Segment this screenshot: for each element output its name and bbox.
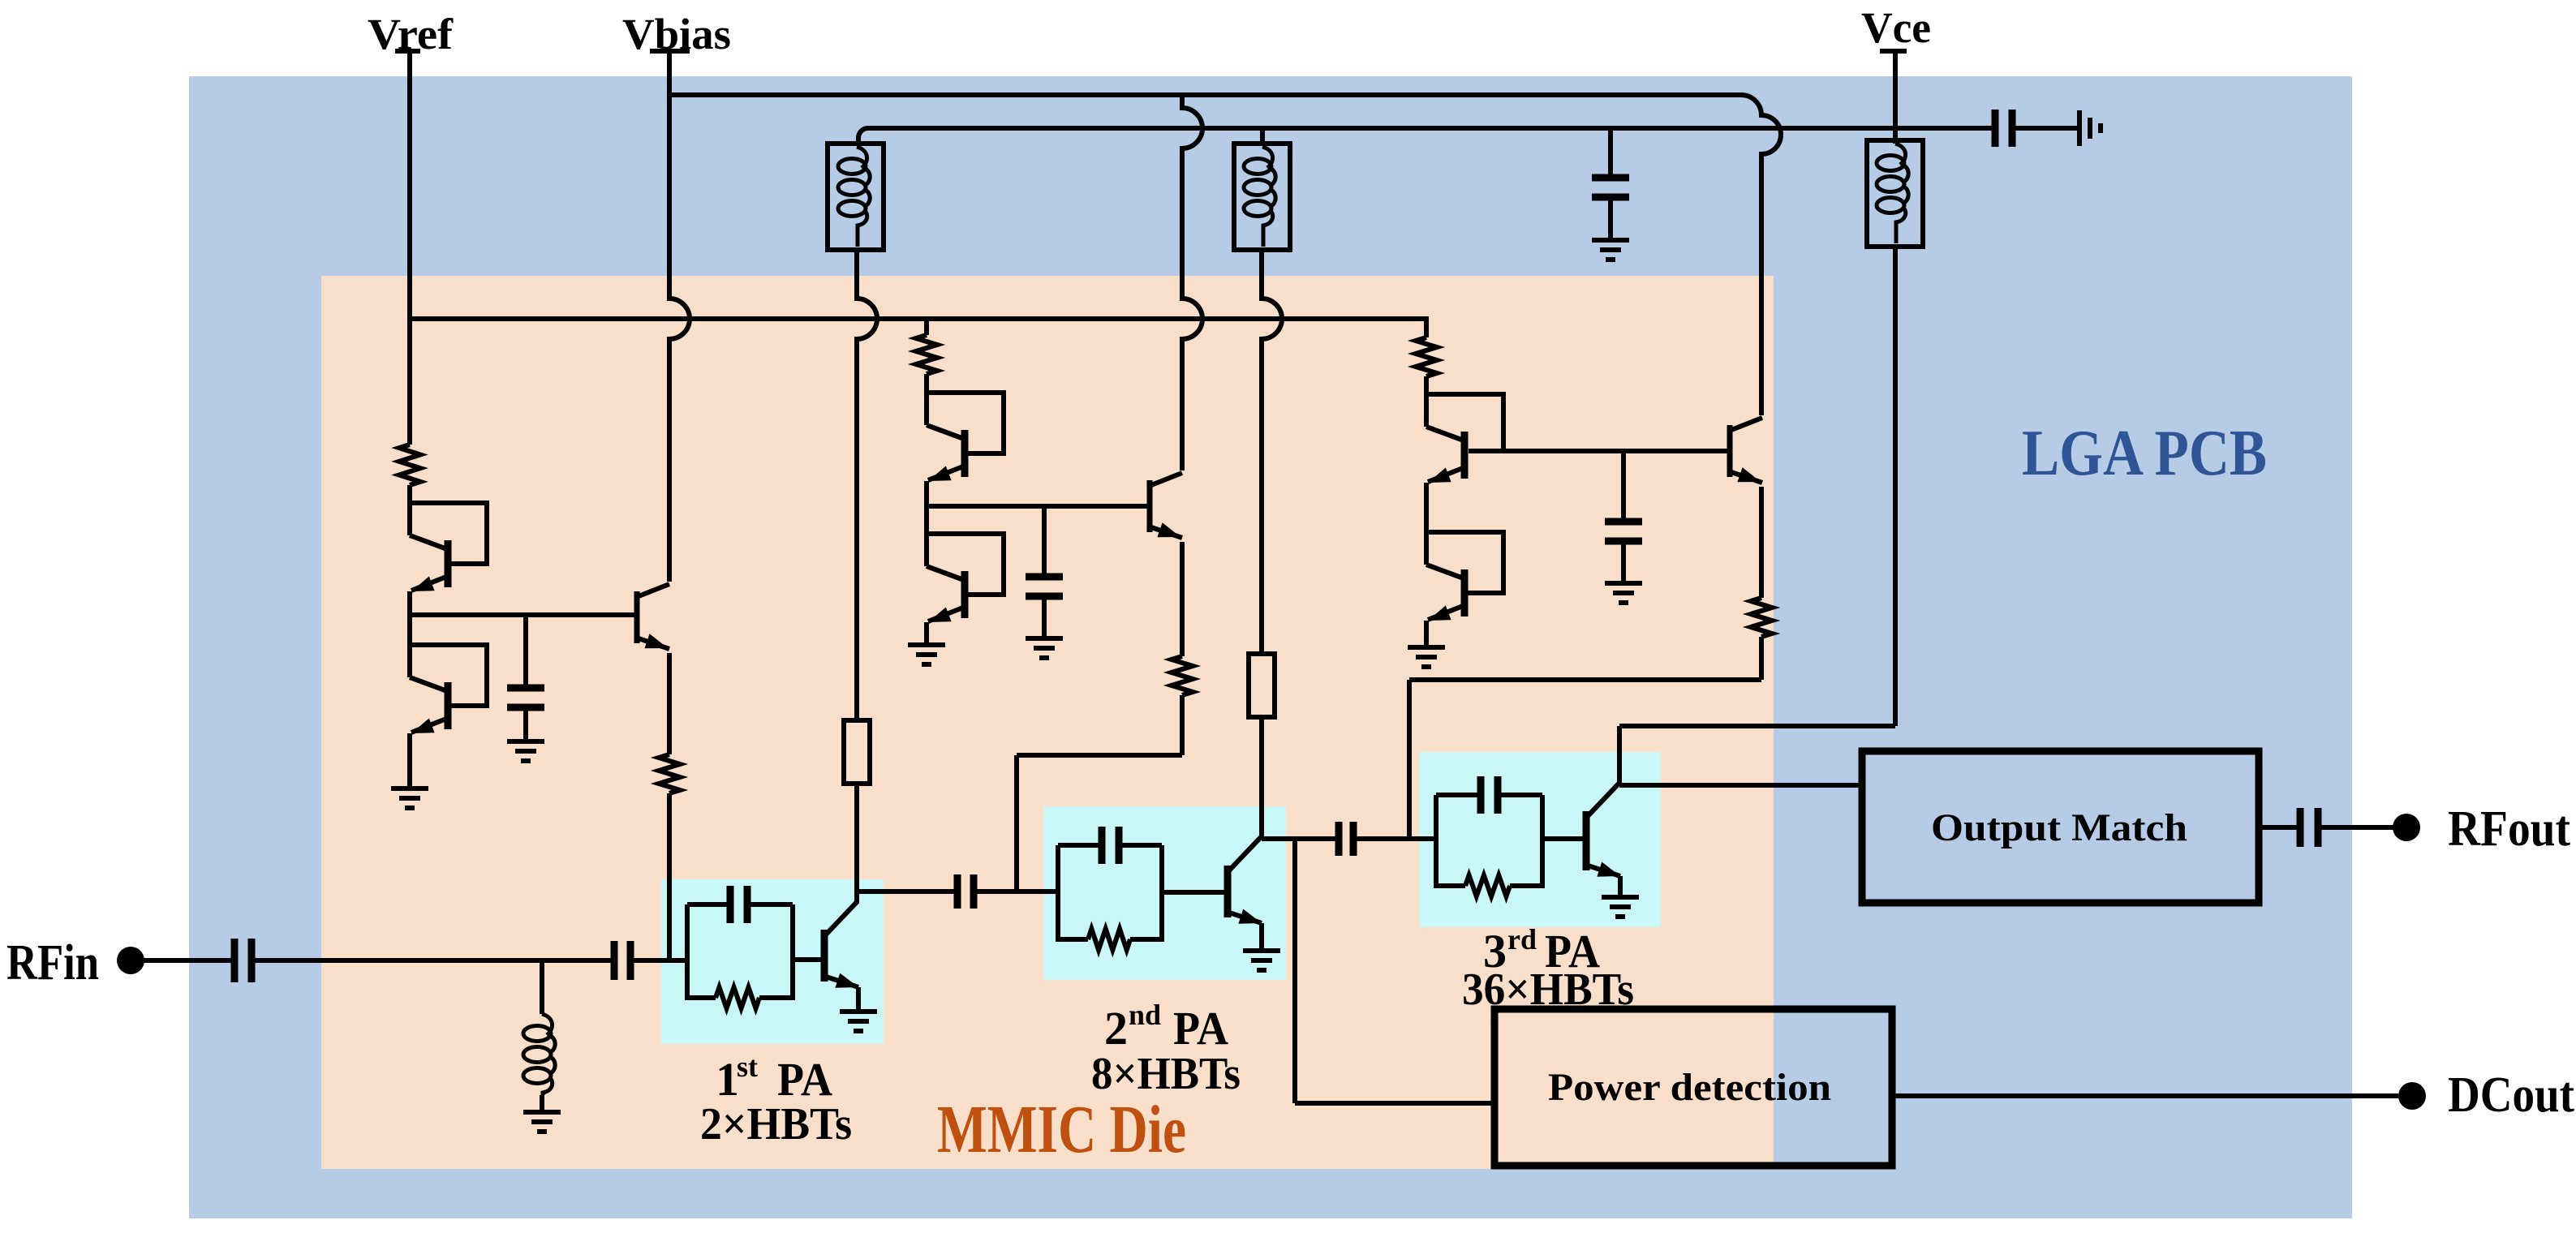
- ballast network PA3 (loop): [1436, 795, 1542, 886]
- wire C4 to side ground: [2012, 126, 2079, 131]
- wire PA1 emitter to ground: [856, 987, 861, 1012]
- svg-text:LGA PCB: LGA PCB: [2022, 418, 2267, 489]
- resistor R1 (Vref bias stack): [399, 445, 420, 485]
- wire follower2 feed horizontal: [1017, 753, 1182, 758]
- label 3rd PA: [1483, 923, 1600, 977]
- wire Vce line2: [858, 128, 1998, 144]
- wire R5 to Q7: [1424, 376, 1429, 394]
- capacitor C1 lead: [523, 615, 528, 688]
- resistor R2 (follower 1 emitter): [659, 754, 680, 793]
- wire ballast2 to base: [1162, 890, 1228, 895]
- wire R7 to PA1 collector: [854, 784, 859, 903]
- ground (PA3): [1602, 897, 1639, 917]
- capacitor C10 (PA2 ballast): [1102, 827, 1119, 864]
- inductor L1 (choke, boxed): [828, 144, 884, 250]
- wire line2 tap to inductor L2: [1260, 128, 1265, 144]
- label RFout: [2448, 801, 2570, 857]
- MMIC Die region (peach panel): [321, 276, 1774, 1169]
- resistor R4 (follower 2 emitter): [1172, 656, 1193, 695]
- ground (C1): [507, 741, 544, 761]
- wire C6 to node A: [252, 958, 614, 963]
- wire L1 lead down with hop over Vref rail: [857, 250, 877, 720]
- capacitor C4 (Vce decoupling, series): [1995, 110, 2012, 147]
- Power detection box: [1494, 1009, 1892, 1166]
- wire Vbias top rail (line 1): [669, 95, 1781, 415]
- wire Vref vertical: [407, 51, 412, 445]
- 1st PA highlight (cyan): [661, 879, 884, 1044]
- resistor R6 (follower 3 emitter): [1751, 598, 1772, 637]
- label MMIC Die: [937, 1092, 1186, 1167]
- resistor R10 (PA2 ballast): [1088, 929, 1130, 950]
- wire ballast1 to base: [793, 957, 824, 962]
- svg-text:8×HBTs: 8×HBTs: [1091, 1049, 1241, 1099]
- wire R8 to PA2 collector: [1259, 717, 1264, 839]
- svg-text:Vce: Vce: [1861, 3, 1931, 52]
- ground (PA1): [840, 1012, 877, 1031]
- wire R2 to PA1 input: [667, 793, 672, 960]
- wire ballast2 mid: [1056, 889, 1060, 894]
- resistor R3 (stack 2): [916, 335, 937, 374]
- capacitor C9 (interstage 1 DC block): [957, 874, 974, 909]
- svg-text:PA: PA: [1173, 1002, 1228, 1055]
- ground (PA2): [1243, 951, 1280, 970]
- transistor Q9 (bias follower 3): [1730, 418, 1762, 483]
- capacitor C1 (base bypass): [507, 688, 544, 707]
- base rail 3: [1469, 449, 1730, 453]
- wire C7 to PA1 ballast: [630, 958, 687, 963]
- ground (C3): [1605, 583, 1642, 603]
- wire follower3 emitter: [1759, 487, 1764, 598]
- wire C1 to ground: [523, 707, 528, 741]
- capacitor C2 (base bypass): [1026, 577, 1063, 596]
- wire rail corner to R5: [1424, 316, 1429, 337]
- wire PA2 collector out: [1262, 836, 1339, 841]
- wire PA3 emitter to ground: [1618, 876, 1623, 897]
- transistor PA3 (36xHBT): [1586, 783, 1620, 877]
- wire Vbias vertical with hop over Vref rail: [669, 51, 690, 582]
- node RFin: [117, 947, 144, 974]
- inductor L4 lead: [540, 960, 544, 1014]
- wire Q7 to Q8: [1424, 483, 1429, 532]
- wire follower1 emitter: [667, 653, 672, 754]
- transistor PA2 (8xHBT): [1228, 837, 1262, 924]
- 2nd PA highlight (cyan): [1043, 806, 1286, 980]
- capacitor C3 lead: [1621, 451, 1626, 522]
- svg-text:2×HBTs: 2×HBTs: [700, 1099, 852, 1149]
- resistor R9 (PA1 ballast): [716, 987, 759, 1008]
- svg-text:Power detection: Power detection: [1548, 1066, 1831, 1109]
- wire Q1 to base node: [407, 591, 412, 645]
- wire R6 down: [1759, 637, 1764, 680]
- Output Match box: [1862, 751, 2259, 903]
- svg-text:DCout: DCout: [2448, 1068, 2574, 1123]
- wire L2 lead down with hop over Vref rail: [1262, 250, 1282, 654]
- svg-text:2: 2: [1104, 1002, 1128, 1055]
- wire C13 to RFout: [2318, 825, 2393, 830]
- resistor R8 (thin-film, L2 lead): [1249, 654, 1275, 717]
- LGA PCB substrate (blue panel): [189, 76, 2352, 1218]
- wire tap horizontal to power detection: [1295, 1101, 1494, 1106]
- svg-text:rd: rd: [1507, 923, 1537, 956]
- capacitor C7 (interstage DC block): [614, 941, 630, 980]
- svg-text:PA: PA: [777, 1053, 832, 1106]
- wire PA1 collector out: [857, 889, 957, 894]
- label 1st PA: [716, 1050, 832, 1106]
- base rail 2: [927, 504, 1150, 509]
- wire PA2 emitter to ground: [1259, 923, 1264, 951]
- wire Vref rail: [410, 316, 1426, 321]
- wire Vce feed corner: [1619, 724, 1895, 728]
- capacitor C6 (input DC block): [234, 939, 252, 982]
- svg-text:nd: nd: [1129, 999, 1161, 1031]
- capacitor C2 lead: [1042, 506, 1047, 577]
- ground (C4, sideways): [2079, 110, 2101, 146]
- ground (C2): [1026, 638, 1063, 658]
- terminal bar Vce: [1880, 49, 1907, 54]
- terminal bar Vbias: [650, 49, 690, 54]
- label Vbias: [622, 10, 731, 58]
- label DCout: [2448, 1068, 2574, 1123]
- wire Q4 to base node 2: [924, 481, 929, 534]
- ground (stack 1): [391, 788, 428, 808]
- label Vce: [1861, 3, 1931, 52]
- capacitor C11 (interstage 2 DC block): [1339, 822, 1353, 856]
- label Output Match: [1931, 806, 2187, 849]
- transistor Q1 (diode-connected): [410, 503, 487, 591]
- wire C5 to ground: [1608, 197, 1613, 240]
- wire output match to C13: [2259, 825, 2300, 830]
- label Power detection: [1548, 1066, 1831, 1109]
- wire R1 to Q1: [407, 485, 412, 503]
- 3rd PA highlight (cyan): [1419, 752, 1661, 927]
- svg-text:RFin: RFin: [6, 935, 99, 990]
- resistor R7 (thin-film, L1 lead): [844, 720, 870, 784]
- wire follower2 feed down: [1014, 755, 1019, 891]
- wire R4 down: [1180, 695, 1185, 755]
- ground (stack 2): [908, 645, 945, 664]
- capacitor C5 lead: [1608, 128, 1613, 178]
- ground (C5): [1592, 240, 1629, 260]
- wire Vce feed to PA3 collector: [1617, 726, 1622, 785]
- node DCout: [2398, 1082, 2426, 1110]
- wire tap to power detection: [1292, 839, 1297, 1103]
- capacitor C3 (base bypass): [1605, 522, 1642, 541]
- inductor L2 (choke, boxed): [1234, 144, 1290, 250]
- ground (stack 3): [1408, 647, 1445, 667]
- wire follower3 feed horizontal: [1409, 677, 1761, 682]
- label RFin: [6, 935, 99, 990]
- capacitor C5 (line2 bypass): [1592, 178, 1629, 197]
- wire L3 lead down: [1893, 247, 1898, 726]
- resistor R5 (stack 3): [1416, 337, 1437, 376]
- wire follower2 emitter: [1180, 542, 1185, 656]
- wire follower3 feed down: [1407, 680, 1412, 839]
- ground (L4): [523, 1112, 561, 1132]
- transistor Q7 (diode-connected): [1426, 394, 1503, 483]
- wire follower2 collector with hops: [1182, 95, 1202, 470]
- wire rail to R3: [924, 319, 929, 335]
- ballast network PA1 (loop): [687, 904, 793, 998]
- capacitor C12 (PA3 ballast): [1481, 776, 1498, 814]
- transistor Q5 (diode-connected): [927, 534, 1004, 622]
- wire Q2 to ground: [407, 733, 412, 788]
- transistor Q6 (bias follower 2): [1150, 473, 1182, 538]
- label Vref: [368, 10, 454, 58]
- wire C2 to ground: [1042, 596, 1047, 638]
- inductor L3 (choke, boxed): [1867, 140, 1923, 247]
- transistor Q3 (bias follower 1): [637, 584, 669, 649]
- capacitor C13 (output DC block): [2300, 808, 2318, 847]
- label 2nd PA: [1104, 999, 1228, 1055]
- base rail 1: [410, 612, 637, 617]
- wire L4 to ground: [540, 1095, 544, 1112]
- transistor Q2 (diode-connected): [410, 645, 487, 733]
- svg-text:Output Match: Output Match: [1931, 806, 2187, 849]
- inductor L4 (shunt): [523, 1014, 555, 1095]
- wire power detection to DCout: [1892, 1093, 2398, 1098]
- wire PA3 collector to output match: [1619, 783, 1862, 788]
- transistor PA1 (2xHBT): [824, 901, 858, 988]
- wire R3 to Q4: [924, 374, 929, 393]
- svg-text:1: 1: [716, 1053, 739, 1106]
- ballast network PA2 (loop): [1058, 845, 1162, 939]
- wire C3 to ground: [1621, 541, 1626, 583]
- label LGA PCB: [2022, 418, 2267, 489]
- label 8xHBTs: [1091, 1049, 1241, 1099]
- wire C11 to PA3 ballast: [1353, 836, 1436, 841]
- wire Vce vertical: [1893, 51, 1898, 144]
- label 36xHBTs: [1462, 964, 1634, 1015]
- wire C9 to PA2 ballast: [974, 889, 1058, 894]
- svg-text:st: st: [737, 1050, 758, 1083]
- resistor R11 (PA3 ballast): [1465, 875, 1510, 896]
- wire RFin: [142, 958, 234, 963]
- svg-text:RFout: RFout: [2448, 801, 2570, 857]
- wire Q8 to ground: [1424, 621, 1429, 647]
- capacitor C8 (PA1 ballast): [730, 886, 747, 923]
- wire ballast3 to base: [1542, 836, 1586, 841]
- node RFout: [2393, 814, 2420, 841]
- transistor Q4 (diode-connected): [927, 393, 1004, 481]
- transistor Q8 (diode-connected): [1426, 532, 1503, 621]
- terminal bar Vref: [395, 49, 420, 54]
- svg-text:MMIC Die: MMIC Die: [937, 1092, 1186, 1167]
- label 2xHBTs: [700, 1099, 852, 1149]
- wire Q5 to ground: [924, 622, 929, 645]
